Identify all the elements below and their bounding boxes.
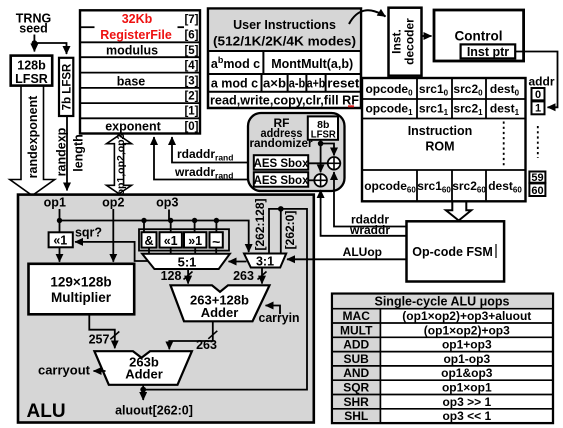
AES Sbox 1 xyxy=(254,155,308,170)
svg-text:Inst ptr: Inst ptr xyxy=(467,45,509,59)
svg-text:ROM: ROM xyxy=(425,140,454,154)
svg-text:Op-code FSM: Op-code FSM xyxy=(412,245,493,259)
wire sqr box to multiplier xyxy=(59,247,61,261)
svg-text:aluout[262:0]: aluout[262:0] xyxy=(115,404,193,418)
ALU uops table xyxy=(332,294,553,424)
svg-text:op1,op2,op3: op1,op2,op3 xyxy=(115,133,127,195)
junction aluout xyxy=(140,387,146,393)
svg-text:[2]: [2] xyxy=(184,91,198,103)
control box xyxy=(434,10,524,61)
svg-text:LFSR: LFSR xyxy=(311,129,336,141)
ROM dotted column xyxy=(503,122,505,169)
wire operand distribution line to 3:1 xyxy=(60,221,249,253)
svg-text:3:1: 3:1 xyxy=(256,254,274,268)
slash 263 xyxy=(258,272,267,280)
randexponent hollow arrow xyxy=(10,85,55,196)
svg-text:«1: «1 xyxy=(164,234,178,248)
svg-text:reset: reset xyxy=(327,77,360,91)
svg-text:a-b: a-b xyxy=(289,77,306,91)
wire sbox1 to XOR1 xyxy=(308,162,327,164)
svg-text:MAC: MAC xyxy=(343,309,371,323)
svg-text:Single-cycle ALU μops: Single-cycle ALU μops xyxy=(375,295,510,309)
svg-text:op1+op3: op1+op3 xyxy=(442,338,492,352)
svg-text:(512/1K/2K/4K modes): (512/1K/2K/4K modes) xyxy=(213,35,356,49)
wire 8b LFSR down xyxy=(320,140,322,173)
wire inst ptr to addr 1 xyxy=(515,52,557,108)
svg-text:32Kb: 32Kb xyxy=(122,12,153,26)
svg-text:Adder: Adder xyxy=(125,367,163,382)
svg-text:&: & xyxy=(144,234,153,248)
label TRNG seed xyxy=(16,12,51,36)
inst decoder xyxy=(389,8,422,76)
svg-text:length: length xyxy=(72,134,86,172)
junction 8b LFSR xyxy=(318,141,324,147)
sqr shifter box xyxy=(49,232,73,247)
svg-text:128: 128 xyxy=(161,269,182,283)
svg-text:[262:128]: [262:128] xyxy=(253,198,267,250)
junction op3/shl-tap xyxy=(168,218,173,223)
svg-text:SQR: SQR xyxy=(343,381,369,395)
svg-text:(op1×op2)+op3: (op1×op2)+op3 xyxy=(424,323,510,337)
svg-text:AES Sbox: AES Sbox xyxy=(254,175,310,187)
svg-text:7b LFSR: 7b LFSR xyxy=(62,63,74,110)
svg-text:Control: Control xyxy=(455,29,503,44)
junction feedback xyxy=(278,206,284,212)
wire feedback 262:0 branch xyxy=(280,209,282,253)
RF address randomizer rounded box xyxy=(248,113,345,191)
svg-text:op3 >> 1: op3 >> 1 xyxy=(442,395,491,409)
svg-text:257: 257 xyxy=(89,333,110,347)
wire adder output xyxy=(169,321,213,349)
svg-text:carryin: carryin xyxy=(259,311,300,325)
svg-text:op3: op3 xyxy=(156,196,178,210)
adder 263+128b xyxy=(171,285,270,321)
not box xyxy=(210,232,223,247)
junction seed xyxy=(32,40,38,46)
mux 3:1 xyxy=(244,254,286,268)
wire wraddr xyxy=(321,190,407,236)
svg-text:128b: 128b xyxy=(17,59,46,73)
wire 3:1 output xyxy=(261,268,263,284)
svg-text:[3]: [3] xyxy=(184,75,198,87)
svg-text:60: 60 xyxy=(531,185,543,197)
svg-text:[6]: [6] xyxy=(184,30,198,42)
svg-text:op1&op3: op1&op3 xyxy=(441,366,493,380)
LFSR 128b xyxy=(11,56,53,86)
svg-text:opcode0: opcode0 xyxy=(365,82,413,98)
uops row MAC xyxy=(340,309,531,423)
addr box 1 xyxy=(532,101,545,114)
svg-text:AND: AND xyxy=(343,366,369,380)
8b LFSR box xyxy=(308,116,338,139)
svg-text:0: 0 xyxy=(535,89,541,101)
svg-text:Multiplier: Multiplier xyxy=(51,290,112,305)
slash 263 adder xyxy=(208,331,217,339)
junction not-tap xyxy=(214,218,219,223)
XOR gate 2 xyxy=(314,174,327,187)
svg-text:MULT: MULT xyxy=(340,323,373,337)
XOR gate 1 xyxy=(328,157,341,170)
svg-text:[7]: [7] xyxy=(184,14,198,26)
wire seed to LFSRs xyxy=(34,35,66,55)
ALU box xyxy=(18,195,314,423)
wire decoder to control xyxy=(422,35,432,37)
logic container box xyxy=(139,229,229,250)
svg-text:User Instructions: User Instructions xyxy=(233,18,336,32)
wire 5:1 output xyxy=(187,269,189,284)
curved arrow to decoder xyxy=(349,10,386,24)
svg-text:randomizer: randomizer xyxy=(250,136,313,150)
svg-text:opcode1: opcode1 xyxy=(365,102,413,118)
shr box xyxy=(184,232,206,247)
svg-text:exponent: exponent xyxy=(105,120,161,134)
wires logic boxes to 5:1 xyxy=(149,248,216,254)
svg-text:[262:0]: [262:0] xyxy=(283,211,297,250)
svg-text:a×b: a×b xyxy=(263,77,286,91)
wire ALUop xyxy=(288,258,407,260)
AES Sbox 2 xyxy=(254,172,308,187)
svg-text:129×128b: 129×128b xyxy=(50,275,111,290)
junction and-tap xyxy=(141,218,146,223)
slash 128 xyxy=(184,272,193,280)
svg-text:«1: «1 xyxy=(53,233,67,247)
text caret artifact xyxy=(495,244,497,258)
svg-text:randexp: randexp xyxy=(55,127,69,176)
User Instructions box xyxy=(208,9,361,109)
svg-text:read,write,copy,clr,fill RF: read,write,copy,clr,fill RF xyxy=(210,94,359,108)
wire rdaddr xyxy=(334,172,407,227)
Instruction ROM table xyxy=(362,78,526,201)
multiplier box xyxy=(29,264,135,315)
svg-text:[1]: [1] xyxy=(184,106,198,118)
svg-text:»1: »1 xyxy=(188,234,202,248)
svg-text:modulus: modulus xyxy=(106,44,158,58)
wire op3 down xyxy=(168,210,170,221)
svg-text:SHL: SHL xyxy=(344,409,368,423)
svg-text:carryout: carryout xyxy=(38,363,91,378)
svg-text:ALUop: ALUop xyxy=(343,245,382,259)
svg-text:ALU: ALU xyxy=(27,401,66,422)
svg-text:decoder: decoder xyxy=(403,18,417,65)
addr box 60 xyxy=(529,183,545,196)
svg-text:1: 1 xyxy=(535,103,541,115)
wire aluout feedback xyxy=(143,209,307,390)
svg-text:op3 << 1: op3 << 1 xyxy=(442,409,491,423)
svg-text:[0]: [0] xyxy=(184,121,198,133)
svg-text:SUB: SUB xyxy=(344,352,370,366)
wire sbox2 to XOR2 xyxy=(308,179,314,181)
Op-code FSM box xyxy=(407,221,505,281)
wire multiplier output xyxy=(89,314,115,348)
svg-text:addr: addr xyxy=(528,75,554,89)
hollow arrow ROM to FSM xyxy=(446,202,471,221)
wire rdaddr_rand xyxy=(172,137,254,163)
svg-text:[5]: [5] xyxy=(184,45,198,57)
and box xyxy=(142,232,157,247)
svg-text:MontMult(a,b): MontMult(a,b) xyxy=(271,57,353,71)
shl box xyxy=(160,232,182,247)
LFSR 7b xyxy=(59,58,73,116)
svg-text:263: 263 xyxy=(233,269,254,283)
op1,op2,op3 hollow double arrow xyxy=(107,135,132,194)
inst ptr box xyxy=(461,44,516,58)
svg-text:Adder: Adder xyxy=(201,305,239,320)
addr dotted xyxy=(537,126,539,158)
svg-text:op1-op3: op1-op3 xyxy=(443,352,490,366)
svg-text:op1: op1 xyxy=(44,196,66,210)
svg-text:5:1: 5:1 xyxy=(178,254,197,269)
svg-text:seed: seed xyxy=(19,22,48,36)
wire branch to XOR1 xyxy=(321,144,334,156)
adder 263b xyxy=(94,351,191,385)
wire wraddr_rand xyxy=(154,137,254,180)
wire carryout xyxy=(94,370,106,372)
junction shr-tap xyxy=(192,218,197,223)
svg-text:(op1×op2)+op3+aluout: (op1×op2)+op3+aluout xyxy=(402,309,531,323)
svg-text:Inst.: Inst. xyxy=(390,29,404,54)
wire ALUop inside ALU to 3:1 xyxy=(287,258,314,260)
RegisterFile row labels xyxy=(105,44,161,134)
slash 257 xyxy=(110,332,119,340)
svg-text:ADD: ADD xyxy=(343,338,369,352)
addr box 0 xyxy=(532,88,545,100)
svg-text:op1×op1: op1×op1 xyxy=(442,381,492,395)
svg-text:59: 59 xyxy=(531,172,543,184)
wire op2 down xyxy=(112,209,114,262)
svg-text:~: ~ xyxy=(212,234,220,250)
RegisterFile title 32Kb xyxy=(100,12,172,42)
svg-text:randexponent: randexponent xyxy=(26,95,40,178)
svg-text:[4]: [4] xyxy=(184,60,198,72)
svg-text:RegisterFile: RegisterFile xyxy=(100,28,172,42)
wire sqr select xyxy=(75,242,149,261)
svg-text:SHR: SHR xyxy=(344,395,370,409)
svg-text:a mod c: a mod c xyxy=(211,77,258,91)
mux 5:1 xyxy=(142,254,230,269)
wire randexp xyxy=(66,116,68,191)
wire select 3:1 to 5:1 xyxy=(229,261,247,263)
svg-text:base: base xyxy=(117,75,146,89)
wire op1 down xyxy=(59,209,61,232)
wire taps into logic boxes xyxy=(144,221,216,233)
svg-text:op2: op2 xyxy=(102,196,124,210)
junction op1 xyxy=(57,218,62,223)
svg-text:AES Sbox: AES Sbox xyxy=(254,158,310,170)
svg-text:a+b: a+b xyxy=(307,77,326,91)
svg-text:Instruction: Instruction xyxy=(408,124,473,138)
svg-text:wraddr: wraddr xyxy=(349,223,390,237)
svg-text:LFSR: LFSR xyxy=(15,72,48,86)
svg-text:263: 263 xyxy=(196,338,217,352)
wire carryin xyxy=(266,306,281,315)
wire aluout xyxy=(142,385,144,400)
addr box 59 xyxy=(529,172,545,183)
red squiggle under RF xyxy=(348,105,354,107)
RegisterFile table xyxy=(80,10,200,133)
svg-text:sqr?: sqr? xyxy=(75,226,102,240)
